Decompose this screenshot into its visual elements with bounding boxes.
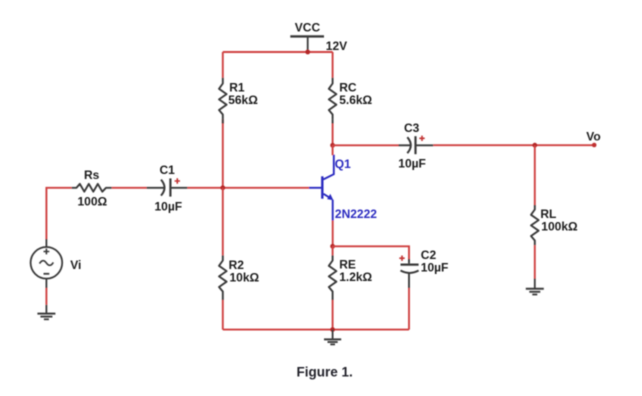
polarity + of C1 (175, 178, 180, 183)
wire: RE bottom lead to bottom rail (332, 296, 334, 300)
wire: RC bottom lead to collector node (332, 119, 334, 123)
svg-text:10µF: 10µF (155, 199, 183, 213)
svg-text:100kΩ: 100kΩ (541, 220, 578, 234)
svg-text:5.6kΩ: 5.6kΩ (339, 93, 372, 107)
wire: C2 bottom lead down to bottom rail (408, 288, 410, 330)
svg-text:1.2kΩ: 1.2kΩ (339, 270, 372, 284)
wire: Vi top to Rs left (46, 188, 71, 239)
wire: emitter node down to RE (332, 246, 334, 255)
terminal Vo (592, 143, 597, 148)
junction: RL tap on output wire (532, 143, 537, 148)
resistor RL (531, 205, 539, 245)
wire: base node down to R2 (222, 188, 224, 256)
wire: R1 top lead from rail (222, 52, 224, 78)
svg-text:Vi: Vi (70, 258, 81, 272)
wire: RL bottom lead to ground (534, 245, 536, 278)
svg-text:VCC: VCC (295, 20, 321, 34)
capacitor C1 (147, 178, 188, 196)
wire: RC top lead from rail corner (332, 52, 334, 78)
junction: collector node (330, 143, 335, 148)
wire: emitter node right to C2 and down (333, 246, 409, 259)
svg-text:Rs: Rs (84, 168, 100, 182)
wire: Q1 emitter down to emitter node (332, 221, 334, 247)
svg-text:10kΩ: 10kΩ (230, 271, 260, 285)
junction: emitter node (330, 244, 335, 249)
ground below RL (526, 279, 544, 295)
polarity + of C2 (399, 256, 404, 261)
resistor RC (329, 78, 337, 119)
wire: top rail from R1 column to RC column (223, 51, 333, 53)
junction: ground tap on bottom rail (330, 327, 335, 332)
resistor RE (329, 255, 337, 296)
junction: VCC tap on top rail (305, 50, 310, 55)
svg-text:100Ω: 100Ω (78, 194, 108, 208)
svg-text:C3: C3 (404, 121, 420, 135)
wire: R2 bottom lead to bottom rail (222, 296, 224, 300)
resistor Rs (72, 184, 112, 192)
svg-text:10µF: 10µF (421, 260, 449, 274)
transistor Q1 (2N2222 NPN) (309, 155, 334, 221)
svg-text:2N2222: 2N2222 (335, 207, 377, 221)
svg-text:56kΩ: 56kΩ (228, 93, 258, 107)
capacitor C2 (401, 259, 419, 288)
svg-text:Q1: Q1 (335, 157, 351, 171)
wire: collector node down to Q1 collector (red part) (332, 145, 334, 155)
resistor R1 (219, 78, 227, 119)
wire: C3 right lead to Vo terminal (433, 144, 594, 146)
svg-text:C1: C1 (160, 163, 176, 177)
ground at bottom rail (324, 330, 341, 345)
ground below Vi (37, 305, 55, 320)
wire: RL top lead (534, 145, 536, 205)
source Vi (AC signal source) (31, 239, 63, 288)
capacitor C3 (399, 136, 434, 154)
power symbol VCC (bar and stub) (290, 36, 324, 52)
wire: Vi bottom to ground (45, 288, 47, 305)
wire: C1 right lead to transistor base (187, 187, 309, 189)
junction: base node (R1/R2 divider tap) (220, 185, 225, 190)
wire: R1 bottom lead down to base node (222, 119, 224, 188)
polarity + of C3 (419, 136, 424, 141)
svg-text:Figure 1.: Figure 1. (297, 364, 353, 379)
emitter arrowhead of Q1 (327, 194, 333, 200)
svg-text:12V: 12V (326, 39, 347, 53)
wire: Rs right to C1 left lead (112, 187, 147, 189)
wire: collector node right to C3 left lead (333, 144, 399, 146)
svg-text:Vo: Vo (586, 130, 600, 144)
resistor R2 (219, 255, 227, 296)
svg-text:10µF: 10µF (398, 156, 426, 170)
wire: bottom rail (223, 329, 409, 331)
